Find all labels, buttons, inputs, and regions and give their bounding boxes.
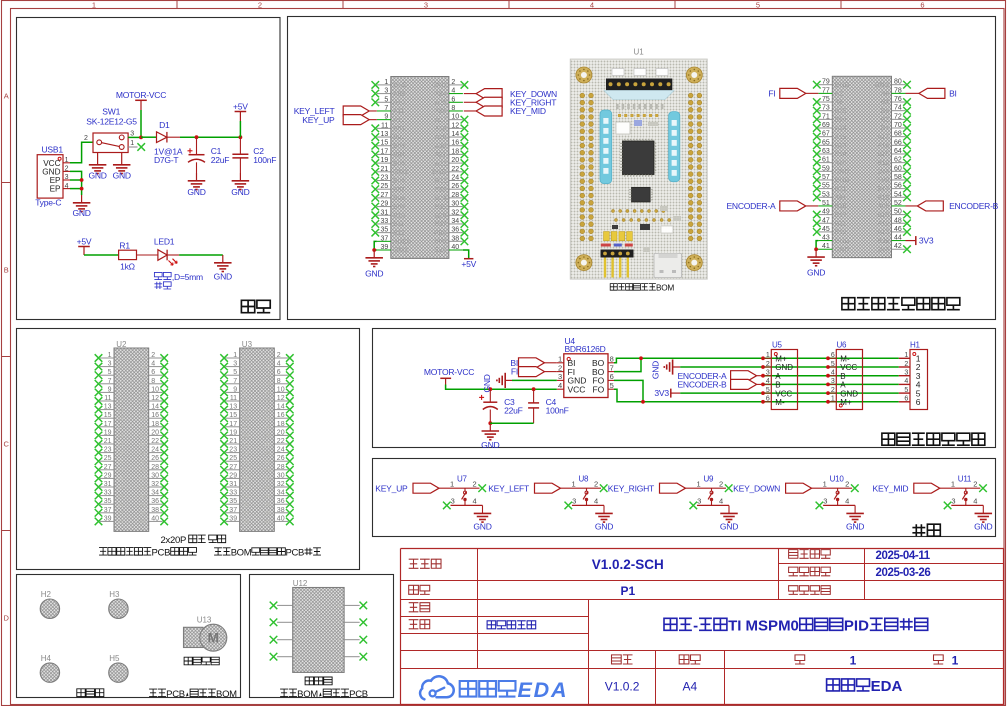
svg-text:3: 3 [697,497,701,506]
ground symbol U7 [482,505,484,513]
no-connect X U10 pin 3 [816,502,824,510]
svg-text:34: 34 [277,490,285,497]
no-connect X pin 55 [813,185,821,193]
svg-text:39: 39 [104,515,112,522]
svg-text:26: 26 [139,459,145,465]
pin 22 (right) [149,443,163,445]
pin 18 (right) [149,426,163,428]
svg-text:21: 21 [243,442,249,448]
no-connect X pin 20 [160,432,168,440]
chip socket U12 body [293,588,344,673]
no-connect X pin 47 [813,219,821,227]
label 定位孔 [77,689,104,697]
no-connect X pin 80 [903,81,911,89]
no-connect X pin 64 [903,150,911,158]
svg-text:1: 1 [118,356,121,362]
wire GND pins 41 43 [816,241,818,250]
no-connect X pin 19 [372,159,380,167]
svg-text:4: 4 [594,497,598,506]
pin 40 (right) [149,520,163,522]
svg-text:A17: A17 [877,134,889,141]
no-connect X pin 35 [95,500,103,508]
no-connect X pin 33 [95,492,103,500]
no-connect X pin 10 [286,389,294,397]
svg-text:B11: B11 [835,220,846,227]
H1 pin 1 indicator dot [913,353,916,356]
svg-text:63: 63 [822,148,830,155]
pin 10 (right) [449,119,463,121]
wire U4 BO pin 7 joins [614,358,641,371]
svg-text:2: 2 [142,356,145,362]
SW1 pivot and contacts [97,140,102,145]
svg-text:2: 2 [84,135,88,142]
svg-text:31: 31 [243,485,249,491]
svg-text:3: 3 [831,378,835,385]
svg-text:2: 2 [451,79,455,86]
svg-text:7: 7 [610,363,614,372]
no-connect X pin 23 [95,449,103,457]
svg-text:3: 3 [572,497,576,506]
svg-text:42: 42 [894,243,902,250]
wire +5V to R1 [84,254,119,256]
svg-text:4: 4 [766,378,770,385]
label 电机模型 [184,657,219,665]
svg-text:27: 27 [381,192,389,199]
ground symbol left connector [373,250,375,258]
svg-text:17: 17 [118,425,124,431]
U4 left pins 1-4 [557,362,564,364]
svg-text:10: 10 [151,386,159,393]
junction GND pin 39 [372,248,376,252]
no-connect X pin 45 [813,228,821,236]
svg-text:1: 1 [558,355,562,364]
pin 8 (right) [149,383,163,385]
svg-text:6: 6 [277,369,281,376]
no-connect X pin 1 [95,354,103,362]
junction EP pin 4 [80,187,84,191]
junction BO net [639,356,643,360]
pin 35 (left) [226,503,240,505]
U9 switch mechanism [711,488,713,491]
no-connect X pin 29 [372,203,380,211]
pin 7 (left) [100,383,114,385]
svg-text:A27: A27 [435,117,447,124]
svg-text:+5V: +5V [233,101,248,111]
title label 图页 [409,585,430,594]
svg-text:15: 15 [229,412,237,419]
pin 11 (left) [226,400,240,402]
svg-text:2: 2 [558,363,562,372]
svg-text:5: 5 [831,361,835,368]
svg-text:P1: P1 [620,584,635,598]
svg-text:A3: A3 [835,99,843,106]
no-connect X pin 31 [220,483,228,491]
no-connect X pin 19 [220,432,228,440]
U5 pins and names [763,357,771,359]
no-connect X pin 31 [95,483,103,491]
svg-text:13: 13 [229,404,237,411]
svg-text:35: 35 [104,498,112,505]
connector body [114,348,149,531]
svg-text:7: 7 [384,105,388,112]
resistor R1 [119,250,137,259]
no-connect X pin 24 [461,177,469,185]
SW1 lever [102,143,120,147]
pin 32 (right) [149,486,163,488]
pin 60 (right) [892,170,906,172]
svg-text:3: 3 [296,638,299,644]
no-connect X pin 9 [95,389,103,397]
svg-text:7: 7 [108,378,112,385]
svg-text:21: 21 [381,166,389,173]
pin 24 (right) [449,179,463,181]
svg-text:11: 11 [243,399,249,405]
svg-text:2: 2 [766,361,770,368]
svg-text:B15: B15 [877,151,889,158]
pin 38 (right) [274,512,288,514]
svg-text:16: 16 [265,416,271,422]
capacitor C4 [533,389,535,403]
svg-text:4: 4 [473,497,477,506]
svg-text:5: 5 [766,387,770,394]
svg-text:57: 57 [822,174,830,181]
svg-text:14: 14 [139,408,145,414]
svg-text:10: 10 [265,391,271,397]
pin 61 (left) [818,162,832,164]
pin 2 (right) [449,84,463,86]
svg-text:30: 30 [277,472,285,479]
svg-text:61: 61 [822,157,830,164]
svg-text:10: 10 [277,386,285,393]
pin 63 (left) [818,153,832,155]
USB1 pin 1 indicator dot [58,157,61,160]
svg-text:53: 53 [822,191,830,198]
svg-text:PCB: PCB [349,689,368,700]
svg-text:44: 44 [894,235,902,242]
svg-text:67: 67 [822,131,830,138]
pin 39 (left) [100,520,114,522]
svg-text:6: 6 [766,396,770,403]
svg-text:B2: B2 [881,117,889,124]
pin 77 (left) [818,92,832,94]
no-connect X pin 18 [461,151,469,159]
svg-text:13: 13 [381,131,389,138]
pin 5 (left) [377,101,391,103]
pin 17 (left) [226,426,240,428]
pin 9 (left) [377,119,391,121]
svg-text:21: 21 [229,438,237,445]
pin 22 (right) [449,171,463,173]
svg-text:56: 56 [894,183,902,190]
U12 pin 5 (right) [344,656,360,658]
pin 21 (left) [377,171,391,173]
no-connect X pin 26 [286,457,294,465]
svg-text:36: 36 [151,498,159,505]
pin 33 (left) [377,223,391,225]
svg-text:1kΩ: 1kΩ [120,261,136,271]
pin 72 (right) [892,118,906,120]
svg-text:23: 23 [381,174,389,181]
svg-text:1: 1 [450,479,454,488]
svg-text:B3: B3 [881,108,889,115]
svg-text:2: 2 [277,352,281,359]
no-connect X pin 30 [461,203,469,211]
svg-text:4: 4 [451,88,455,95]
svg-text:11: 11 [230,395,237,402]
svg-text:A2: A2 [835,91,843,98]
svg-text:+5V: +5V [461,259,476,269]
svg-text:FI: FI [511,367,518,377]
svg-text:26: 26 [265,459,271,465]
no-connect X pin 12 [286,397,294,405]
pin 47 (left) [818,222,832,224]
pin 32 (right) [274,486,288,488]
svg-text:BDR6126D: BDR6126D [565,344,606,354]
no-connect X pin 1 [372,81,380,89]
pin 8 (right) [449,110,463,112]
no-connect X pin 38 [461,238,469,246]
pin 35 (left) [377,232,391,234]
svg-text:12: 12 [451,122,459,129]
section title 电机驱动和接口 [882,433,985,445]
svg-text:5V0: 5V0 [435,239,447,246]
pin 14 (right) [449,136,463,138]
svg-text:20: 20 [151,429,159,436]
svg-text:U8: U8 [579,475,590,484]
svg-text:29: 29 [118,477,124,483]
svg-text:15: 15 [381,140,389,147]
svg-text:27: 27 [243,468,249,474]
pin 27 (left) [100,469,114,471]
no-connect X pin 69 [813,124,821,132]
svg-text:A12: A12 [877,220,889,227]
pin 8 (right) [274,383,288,385]
no-connect X pin 36 [286,500,294,508]
svg-text:M+: M+ [840,398,852,407]
svg-text:8: 8 [151,378,155,385]
pin 14 (right) [274,409,288,411]
no-connect X U9 pin 2 [725,484,733,492]
U10 bottom pins 3 4 [823,504,855,506]
svg-text:B01: B01 [393,126,405,133]
svg-text:GND: GND [835,177,850,184]
U12 pin 7 (right) [344,621,360,623]
svg-text:51: 51 [822,200,830,207]
svg-text:D7G-T: D7G-T [154,155,179,165]
U11 bottom pins 3 4 [951,504,983,506]
svg-text:38: 38 [451,235,459,242]
svg-text:+5V: +5V [77,236,92,246]
pin 5 (left) [226,374,240,376]
pin 18 (right) [449,153,463,155]
svg-text:9: 9 [384,114,388,121]
no-connect X pin 37 [95,509,103,517]
JLCEDA logo text 嘉立创EDA [460,681,516,697]
U10 switch mechanism [837,488,839,491]
no-connect X pin 28 [461,194,469,202]
no-connect X pin 20 [461,159,469,167]
svg-text:22: 22 [277,438,285,445]
svg-text:5: 5 [108,369,112,376]
pin 31 (left) [226,486,240,488]
svg-text:A24: A24 [435,91,447,98]
no-connect X pin 33 [372,220,380,228]
svg-text:19: 19 [104,429,112,436]
svg-text:B1: B1 [881,125,889,132]
pin 34 (right) [149,495,163,497]
no-connect X pin 9 [220,389,228,397]
no-connect X pin 12 [461,125,469,133]
svg-text:KEY_UP: KEY_UP [375,483,408,493]
svg-text:24: 24 [139,451,145,457]
svg-text:20: 20 [277,429,285,436]
svg-text:10: 10 [451,114,459,121]
svg-text:3: 3 [118,365,121,371]
no-connect X pin 2 [461,81,469,89]
svg-text:5: 5 [233,369,237,376]
no-connect X pin 7 [95,380,103,388]
no-connect X pin 24 [286,449,294,457]
svg-text:FI: FI [768,89,775,99]
svg-text:33: 33 [104,490,112,497]
svg-text:26: 26 [151,455,159,462]
svg-text:B04: B04 [393,152,405,159]
svg-text:BOM: BOM [656,282,674,292]
svg-text:4: 4 [277,361,281,368]
pin 80 (right) [892,84,906,86]
pin 19 (left) [100,434,114,436]
pin 6 (right) [449,101,463,103]
svg-text:2025-03-26: 2025-03-26 [876,567,931,579]
ground symbol LED row [222,255,224,263]
driver chip U4 body [564,354,608,398]
svg-text:B11: B11 [393,221,404,228]
no-connect X pin 46 [903,228,911,236]
svg-text:B10: B10 [877,212,889,219]
svg-text:24: 24 [151,447,159,454]
svg-text:14: 14 [451,131,459,138]
pin 37 (left) [377,240,391,242]
svg-text:KEY_MID: KEY_MID [510,106,546,116]
svg-text:32: 32 [151,481,159,488]
svg-text:3V3: 3V3 [877,246,889,253]
svg-text:100nF: 100nF [546,406,569,416]
no-connect X pin 16 [461,142,469,150]
pin 15 (left) [100,417,114,419]
block border: power section [17,18,281,320]
svg-text:1: 1 [904,352,908,359]
svg-text:KEY_MID: KEY_MID [873,483,909,493]
svg-text:16: 16 [451,140,459,147]
svg-text:8: 8 [268,382,271,388]
pin 13 (left) [377,136,391,138]
pin 32 (right) [449,214,463,216]
svg-text:3: 3 [108,361,112,368]
svg-text:B19: B19 [877,194,889,201]
svg-text:29: 29 [381,201,389,208]
svg-text:BOM: BOM [231,547,252,558]
svg-text:M+: M+ [775,355,787,364]
capacitor C3 (polarized) [489,389,491,402]
no-connect X pin 54 [903,193,911,201]
svg-text:3: 3 [951,497,955,506]
no-connect X pin 73 [813,107,821,115]
wire MOTOR-VCC to U4 VCC pin 4 [446,385,557,390]
svg-text:38: 38 [277,507,285,514]
net port KEY_RIGHT [464,101,476,103]
pin 11 (left) [377,127,391,129]
svg-text:31: 31 [381,209,389,216]
svg-text:37: 37 [118,511,124,517]
no-connect X pin 17 [372,151,380,159]
svg-text:1: 1 [243,356,246,362]
pin 16 (right) [274,417,288,419]
pin 27 (left) [226,469,240,471]
svg-text:8: 8 [338,604,341,610]
no-connect X pin 5 [220,371,228,379]
no-connect X pin 2 [286,354,294,362]
pin 13 (left) [100,409,114,411]
svg-text:16: 16 [277,412,285,419]
svg-text:33: 33 [243,494,249,500]
svg-text:3: 3 [424,0,428,9]
no-connect X pin 12 [160,397,168,405]
svg-text:B24: B24 [835,117,847,124]
svg-text:13: 13 [118,408,124,414]
svg-text:A15: A15 [835,134,847,141]
no-connect X pin 34 [160,492,168,500]
svg-text:20: 20 [451,157,459,164]
pin 6 (right) [149,374,163,376]
no-connect X pin 23 [220,449,228,457]
svg-text:50: 50 [894,209,902,216]
JLCEDA logo cloud icon [420,676,454,699]
no-connect X U9 pin 3 [690,502,698,510]
svg-text:A13: A13 [877,229,889,236]
no-connect X pin 68 [903,133,911,141]
svg-text:-: - [693,618,698,635]
svg-text:36: 36 [265,502,271,508]
wire GND pins 37 39 [374,241,377,250]
pin 13 (left) [226,409,240,411]
pin 30 (right) [149,477,163,479]
no-connect X pin 27 [220,466,228,474]
no-connect X U10 pin 2 [851,484,859,492]
svg-text:U2: U2 [116,340,127,349]
svg-text:5: 5 [384,96,388,103]
svg-text:MOTOR-VCC: MOTOR-VCC [424,367,474,377]
no-connect X pin 53 [813,193,821,201]
dev board U1 PCB image [570,59,707,279]
title label 创建日期 [789,567,831,576]
svg-text:32: 32 [451,209,459,216]
no-connect X pin 63 [813,150,821,158]
block border: 2x20P headers section [17,329,360,570]
pin 20 (right) [149,434,163,436]
pin 46 (right) [892,231,906,233]
svg-text:26: 26 [451,183,459,190]
pin 28 (right) [449,197,463,199]
rotated ground symbol at U4 pin 3 [512,379,557,381]
wire U4 FO pin 6 joins [614,380,643,401]
ground symbol U10 [854,505,856,513]
svg-text:5: 5 [756,0,760,9]
pin 9 (left) [226,391,240,393]
svg-text:46: 46 [894,226,902,233]
no-connect X pin 75 [813,98,821,106]
no-connect X pin 11 [372,125,380,133]
svg-text:1: 1 [823,479,827,488]
